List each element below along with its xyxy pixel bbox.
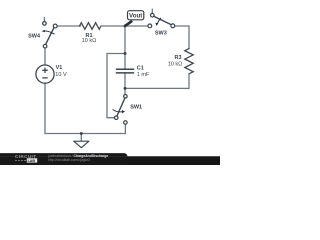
svg-text:10 kΩ: 10 kΩ <box>82 38 97 44</box>
svg-text:R3: R3 <box>174 55 181 61</box>
svg-text:SW3: SW3 <box>155 31 167 37</box>
svg-text:SW4: SW4 <box>28 34 41 40</box>
svg-text:1 mF: 1 mF <box>137 72 150 78</box>
svg-text:SW1: SW1 <box>130 105 142 111</box>
svg-text:V1: V1 <box>56 65 63 71</box>
svg-text:http://circuitlab.com/cjog6z3: http://circuitlab.com/cjog6z3 <box>48 158 90 162</box>
svg-text:10 kΩ: 10 kΩ <box>168 61 183 67</box>
svg-text:C1: C1 <box>137 66 144 72</box>
svg-text:LAB: LAB <box>28 159 36 163</box>
svg-text:10 V: 10 V <box>55 72 67 78</box>
svg-text:Vout: Vout <box>129 13 142 20</box>
